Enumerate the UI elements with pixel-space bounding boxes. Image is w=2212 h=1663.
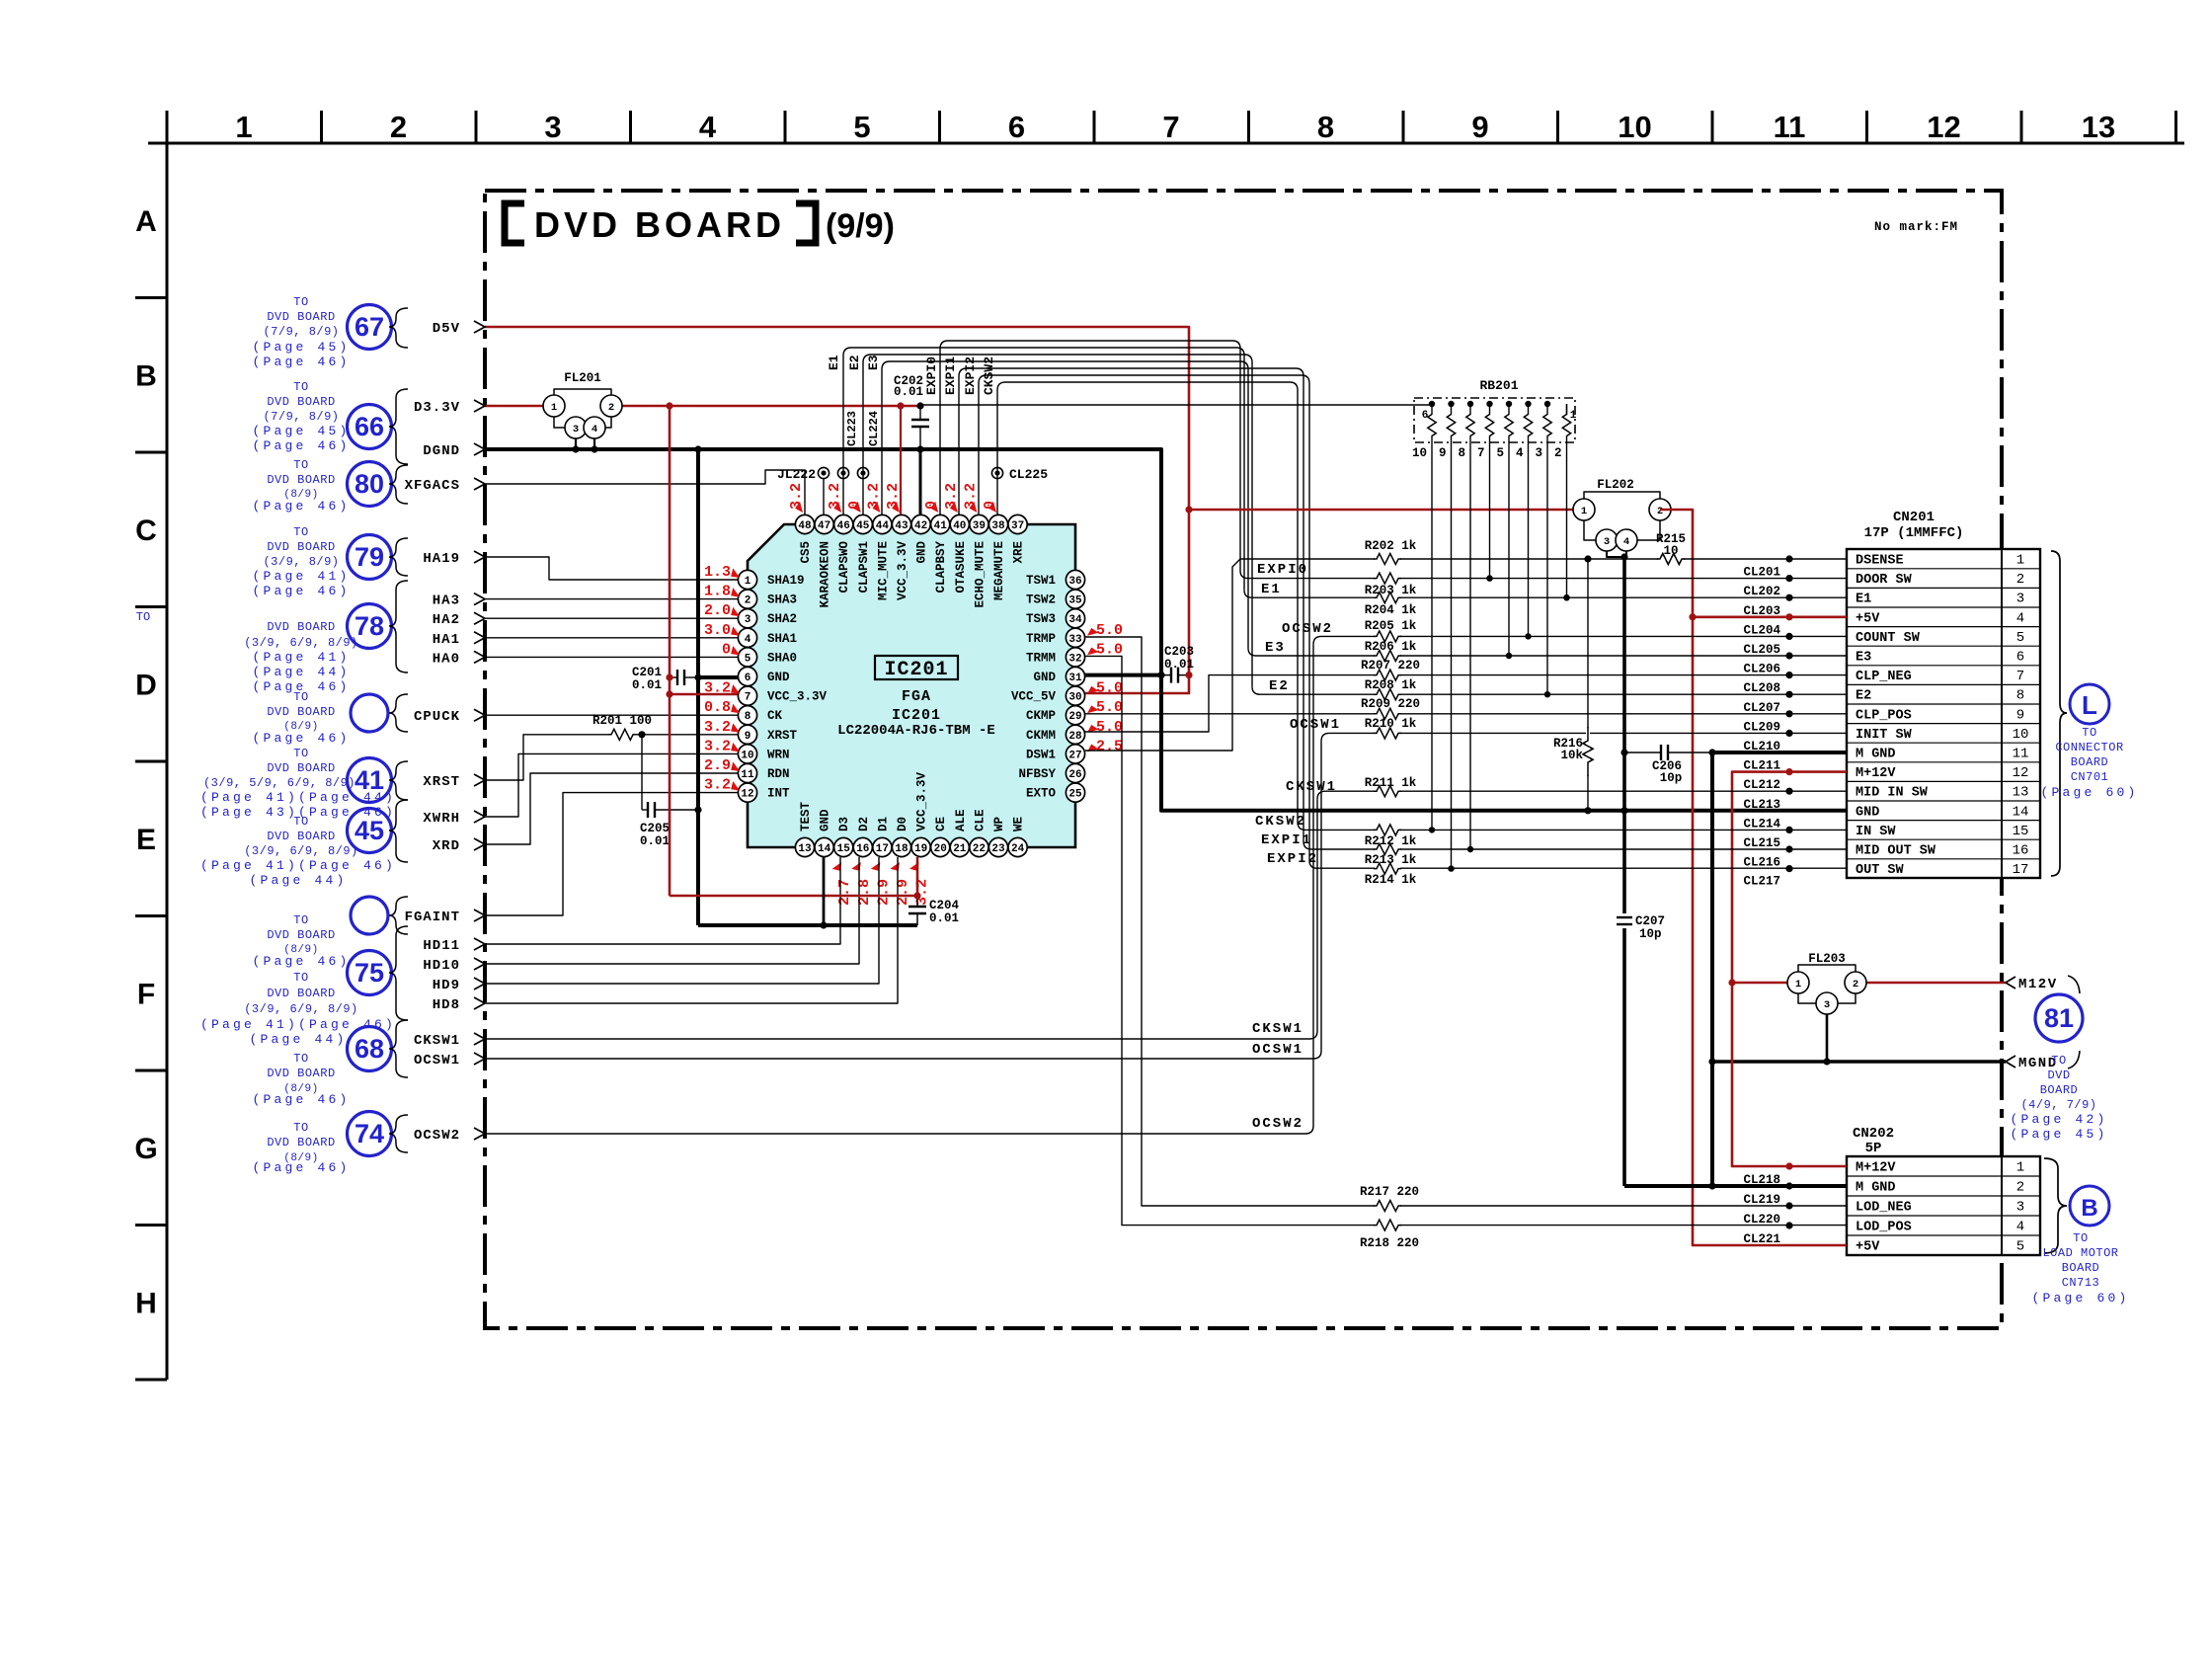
svg-text:(3/9, 6/9, 8/9): (3/9, 6/9, 8/9) [244, 844, 358, 858]
resistor R215 10 (zigzag overlay) [1658, 557, 1684, 561]
svg-text:4: 4 [745, 634, 751, 646]
svg-text:NFBSY: NFBSY [1018, 767, 1056, 781]
svg-text:DVD BOARD: DVD BOARD [267, 928, 335, 942]
svg-text:XWRH: XWRH [423, 811, 460, 827]
wire/bus E3 from pin44 [882, 361, 1248, 648]
svg-text:TSW1: TSW1 [1026, 574, 1056, 588]
svg-text:1.8: 1.8 [704, 584, 731, 600]
svg-text:67: 67 [355, 312, 384, 342]
svg-text:TO: TO [2051, 1054, 2066, 1068]
svg-text:(Page 46): (Page 46) [252, 438, 350, 453]
svg-text:DSENSE: DSENSE [1856, 554, 1904, 569]
svg-text:M GND: M GND [1856, 1181, 1896, 1196]
svg-text:R204 1k: R204 1k [1365, 603, 1417, 617]
svg-text:R203 1k: R203 1k [1365, 584, 1417, 597]
resistor R210 1k [1375, 731, 1400, 735]
svg-text:EXTO: EXTO [1026, 787, 1057, 801]
svg-text:GND: GND [915, 541, 929, 564]
svg-text:R208 1k: R208 1k [1365, 678, 1417, 692]
svg-text:R201 100: R201 100 [592, 714, 652, 728]
svg-text:3.2: 3.2 [704, 738, 731, 754]
exit arrow M12V [2006, 977, 2015, 989]
red wire below IC to pin19 [670, 895, 917, 898]
svg-text:CLP_POS: CLP_POS [1856, 708, 1912, 723]
svg-text:CKSW1: CKSW1 [414, 1033, 460, 1049]
svg-text:13: 13 [2082, 110, 2115, 144]
wire E3 row6 [1248, 648, 1847, 656]
svg-text:35: 35 [1068, 595, 1082, 607]
svg-text:VCC_3.3V: VCC_3.3V [767, 690, 828, 704]
svg-text:3.2: 3.2 [704, 777, 731, 794]
svg-text:TRMP: TRMP [1026, 632, 1056, 646]
svg-text:DVD BOARD: DVD BOARD [267, 705, 335, 719]
svg-text:DVD BOARD: DVD BOARD [267, 1067, 335, 1080]
via JL222 [823, 478, 825, 515]
svg-text:L: L [2082, 690, 2097, 720]
svg-text:WRN: WRN [767, 748, 790, 761]
svg-text:0: 0 [722, 641, 731, 658]
resistor R216 10k [1587, 559, 1589, 727]
wire HA19 [485, 557, 738, 580]
riser CKSW1 up to tag row13 [1316, 799, 1318, 1031]
wire DGND (thick) [485, 449, 1847, 811]
svg-text:68: 68 [355, 1034, 384, 1064]
svg-text:R205 1k: R205 1k [1365, 619, 1417, 633]
svg-text:9: 9 [745, 731, 751, 743]
wire pin7 VCC_3.3V red [670, 693, 738, 696]
FL203 pin3 to MGND [1826, 1014, 1829, 1062]
capacitor C203 0.01 [1161, 674, 1171, 676]
wire MID OUT SW row16 (EXPI1 tag) [1303, 841, 1847, 849]
wire/bus EXPI0 from pin41 [940, 341, 1240, 571]
svg-text:8: 8 [745, 711, 751, 723]
svg-text:(Page 41)(Page 46): (Page 41)(Page 46) [200, 1017, 396, 1032]
svg-text:C204: C204 [929, 899, 960, 912]
svg-text:CL221: CL221 [1743, 1232, 1780, 1246]
svg-text:CL204: CL204 [1743, 623, 1780, 637]
svg-text:OCSW2: OCSW2 [1282, 621, 1333, 637]
svg-text:TO: TO [293, 1052, 308, 1066]
svg-text:FGAINT: FGAINT [405, 910, 460, 925]
svg-text:20: 20 [934, 843, 947, 855]
svg-text:0.01: 0.01 [894, 385, 923, 399]
brace M12V/MGND to 81 [2068, 976, 2080, 993]
riser OCSW2 up to tag row5 [1312, 644, 1314, 1126]
svg-text:FL201: FL201 [564, 371, 601, 385]
svg-text:CS5: CS5 [799, 541, 813, 564]
wire HA2 [485, 617, 738, 619]
svg-text:7: 7 [1162, 110, 1179, 144]
svg-text:1: 1 [235, 110, 252, 144]
resistor R206 1k [1375, 654, 1400, 658]
resistor R214 1k [1375, 867, 1400, 871]
svg-text:1: 1 [551, 402, 557, 414]
via CL223 [837, 467, 848, 478]
red +5V riser x=1714 [1660, 510, 1847, 1245]
svg-text:17: 17 [2013, 862, 2029, 878]
svg-text:TO: TO [293, 913, 308, 927]
svg-text:CL217: CL217 [1743, 875, 1780, 889]
wire E1 row3 [1244, 591, 1847, 598]
svg-text:R214 1k: R214 1k [1365, 873, 1417, 887]
wire OCSW1 from entry to riser [485, 1058, 1313, 1060]
svg-text:D3: D3 [837, 817, 851, 831]
svg-text:40: 40 [953, 520, 966, 532]
svg-text:CPUCK: CPUCK [414, 709, 460, 725]
wire XWRH to pin10 WRN [485, 753, 738, 817]
svg-text:CN202: CN202 [1853, 1126, 1894, 1142]
svg-text:BOARD: BOARD [2062, 1261, 2100, 1275]
svg-text:B: B [2081, 1195, 2097, 1222]
svg-text:DVD: DVD [2047, 1069, 2070, 1082]
svg-text:HA2: HA2 [433, 612, 460, 628]
capacitor C201 0.01 [670, 676, 677, 678]
svg-text:R218 220: R218 220 [1360, 1236, 1419, 1250]
svg-text:22: 22 [973, 843, 986, 855]
svg-text:TEST: TEST [799, 801, 813, 831]
svg-text:36: 36 [1068, 576, 1081, 588]
svg-text:CL212: CL212 [1743, 778, 1780, 792]
capacitor C207 10p [1617, 916, 1632, 918]
ref circle 68 (CKSW1/OCSW1) [348, 1027, 392, 1071]
svg-text:CL206: CL206 [1743, 663, 1780, 676]
svg-text:RB201: RB201 [1479, 378, 1518, 393]
svg-text:2: 2 [1554, 446, 1562, 460]
svg-text:2: 2 [1853, 979, 1858, 990]
svg-text:(7/9, 8/9): (7/9, 8/9) [263, 410, 339, 424]
svg-text:DOOR SW: DOOR SW [1856, 573, 1913, 588]
wire MGND (thick) [1712, 1060, 2006, 1064]
branch D3.3V down to pin43 [900, 406, 902, 515]
svg-text:6: 6 [1008, 110, 1025, 144]
svg-text:CL216: CL216 [1743, 856, 1780, 870]
svg-text:HD8: HD8 [433, 997, 460, 1013]
svg-text:HA0: HA0 [433, 651, 460, 667]
svg-text:10p: 10p [1639, 927, 1662, 941]
wire XRD to pin11 RDN [485, 773, 738, 844]
svg-text:7: 7 [745, 692, 751, 704]
svg-text:EXPI0: EXPI0 [1257, 562, 1308, 578]
svg-text:15: 15 [2013, 824, 2029, 839]
wire HD8 to pin18 D0 [485, 857, 898, 1003]
IC201 left pins 1-12 [738, 570, 756, 589]
wire INIT SW row10 (OCSW1 tag) [1329, 732, 1847, 734]
svg-text:27: 27 [1068, 750, 1081, 761]
svg-text:D2: D2 [857, 817, 871, 831]
svg-text:(3/9, 8/9): (3/9, 8/9) [263, 555, 339, 569]
svg-text:3.0: 3.0 [704, 622, 731, 639]
svg-text:G: G [134, 1133, 157, 1165]
wire HA0 [485, 656, 738, 658]
wire MID IN SW row13 (CKSW1 tag) [1325, 790, 1847, 792]
svg-text:CK: CK [767, 709, 783, 723]
ref circle 78 (HA3-HA0) [348, 604, 392, 649]
svg-text:HA1: HA1 [433, 632, 460, 648]
svg-text:TO: TO [293, 971, 308, 985]
svg-text:OCSW1: OCSW1 [1290, 717, 1341, 733]
svg-text:12: 12 [741, 789, 753, 801]
svg-text:48: 48 [798, 520, 812, 532]
svg-text:CL219: CL219 [1743, 1193, 1780, 1207]
svg-text:10: 10 [1663, 544, 1678, 558]
svg-text:25: 25 [1068, 789, 1082, 801]
svg-text:XRST: XRST [423, 774, 460, 790]
svg-text:CL207: CL207 [1743, 701, 1780, 715]
svg-text:3: 3 [2016, 1200, 2024, 1216]
svg-text:3: 3 [1604, 536, 1610, 548]
svg-text:CL202: CL202 [1743, 585, 1780, 598]
pin14 GND drop (thick) [823, 857, 826, 925]
svg-text:18: 18 [895, 843, 908, 855]
svg-text:2: 2 [608, 402, 614, 414]
svg-text:1.3: 1.3 [704, 564, 731, 581]
wire XFGACS to pin48 CS5 [485, 470, 805, 515]
svg-text:TO: TO [293, 815, 308, 829]
svg-text:(Page 46): (Page 46) [252, 1092, 350, 1107]
wire COUNT SW row5 (OCSW2 tag) [1321, 635, 1847, 637]
wire/bus EXPI1 from pin40 [959, 368, 1303, 841]
svg-text:TO: TO [293, 1121, 308, 1135]
svg-text:5: 5 [853, 110, 870, 144]
svg-text:D5V: D5V [433, 321, 460, 337]
svg-text:CKMM: CKMM [1026, 729, 1056, 743]
svg-text:6: 6 [1422, 410, 1429, 422]
svg-text:CL211: CL211 [1743, 759, 1780, 773]
svg-text:R207 220: R207 220 [1361, 659, 1420, 673]
svg-text:78: 78 [355, 611, 384, 641]
resistor R217 220 [1375, 1204, 1400, 1208]
wire HD9 to pin17 D1 [485, 857, 879, 984]
svg-text:(9/9): (9/9) [826, 207, 895, 245]
svg-text:No mark:FM: No mark:FM [1874, 220, 1958, 234]
svg-text:10p: 10p [1660, 771, 1683, 785]
wire FGAINT to pin12 INT [485, 793, 738, 915]
svg-text:10k: 10k [1560, 749, 1583, 762]
svg-text:EXPI2: EXPI2 [963, 356, 978, 395]
svg-text:BOARD: BOARD [2071, 755, 2109, 769]
svg-text:XRE: XRE [1012, 541, 1026, 564]
svg-text:+5V: +5V [1856, 1240, 1880, 1255]
svg-text:3: 3 [2016, 592, 2024, 607]
svg-text:5P: 5P [1865, 1141, 1882, 1156]
svg-text:DVD BOARD: DVD BOARD [267, 830, 335, 843]
svg-text:CL214: CL214 [1743, 817, 1780, 831]
svg-text:32: 32 [1068, 653, 1081, 665]
svg-text:TRMM: TRMM [1026, 651, 1056, 665]
svg-text:3.2: 3.2 [865, 483, 882, 510]
svg-text:(Page 46): (Page 46) [252, 731, 350, 746]
M-GND drop vertical x=1734 (thick) [1710, 752, 1714, 1186]
svg-text:3.2: 3.2 [704, 719, 731, 736]
riser OCSW1 up to tag row10 [1320, 741, 1322, 1051]
svg-text:VCC_3.3V: VCC_3.3V [915, 771, 929, 831]
svg-text:CLAPSWO: CLAPSWO [837, 541, 851, 594]
wire IN SW row15 (CKSW2 tag) [1298, 822, 1847, 830]
svg-text:CL220: CL220 [1743, 1213, 1780, 1227]
svg-text:3.2: 3.2 [962, 483, 979, 510]
svg-text:TO: TO [293, 380, 308, 394]
svg-text:WP: WP [992, 817, 1006, 831]
svg-text:(Page 41)(Page 46): (Page 41)(Page 46) [200, 858, 396, 873]
M-GND trunk vertical x=1645 (thick) [1622, 557, 1626, 913]
svg-text:EXPI0: EXPI0 [924, 356, 939, 395]
svg-text:DVD BOARD: DVD BOARD [267, 310, 335, 324]
svg-text:CL218: CL218 [1743, 1173, 1780, 1187]
svg-text:17: 17 [876, 843, 889, 855]
svg-text:CL225: CL225 [1009, 467, 1048, 482]
wire OUT SW row17 (EXPI2 tag) [1309, 860, 1847, 868]
svg-text:MIC_MUTE: MIC_MUTE [876, 541, 890, 600]
junction dot D5V/FL202 [1185, 506, 1192, 513]
svg-text:(Page 46): (Page 46) [252, 1160, 350, 1175]
svg-text:47: 47 [818, 520, 830, 532]
svg-text:2.0: 2.0 [704, 602, 731, 619]
svg-text:31: 31 [1068, 673, 1082, 684]
svg-text:CONNECTOR: CONNECTOR [2055, 741, 2123, 754]
svg-text:CL209: CL209 [1743, 720, 1780, 734]
svg-text:4: 4 [1623, 536, 1629, 548]
svg-text:TSW2: TSW2 [1026, 594, 1056, 607]
svg-text:1: 1 [745, 576, 751, 588]
svg-text:CL224: CL224 [867, 411, 881, 446]
svg-text:TO: TO [136, 610, 150, 624]
svg-text:A: A [135, 205, 157, 238]
ref circle 80 (XFGACS) [348, 462, 392, 507]
brace CN201 to L [2051, 551, 2067, 876]
svg-text:CN701: CN701 [2071, 770, 2109, 784]
svg-text:(Page 46): (Page 46) [252, 954, 350, 969]
wire HA1 [485, 637, 738, 639]
svg-text:1: 1 [1795, 979, 1801, 990]
svg-text:41: 41 [934, 520, 948, 532]
ref circle 79 (HA19) [348, 535, 392, 580]
svg-text:CL215: CL215 [1743, 836, 1780, 850]
svg-text:LOAD MOTOR: LOAD MOTOR [2042, 1246, 2118, 1260]
wire/bus CKSW2 from pin38 [997, 382, 1298, 822]
svg-text:SHA0: SHA0 [767, 651, 797, 665]
ref circle 81 (M12V/MGND) [2035, 994, 2083, 1042]
svg-text:E2: E2 [1856, 689, 1871, 704]
svg-text:80: 80 [355, 469, 384, 499]
svg-text:5: 5 [2016, 630, 2024, 646]
capacitor C202 0.01 [919, 406, 921, 420]
svg-text:DVD BOARD: DVD BOARD [267, 761, 335, 775]
svg-text:3.2: 3.2 [885, 483, 902, 510]
svg-text:9: 9 [1439, 446, 1447, 460]
svg-text:HD11: HD11 [423, 938, 460, 954]
svg-text:SHA2: SHA2 [767, 612, 797, 626]
svg-text:10: 10 [741, 750, 753, 761]
svg-text:0.01: 0.01 [632, 678, 662, 692]
svg-text:M+12V: M+12V [1856, 766, 1896, 781]
svg-text:COUNT SW: COUNT SW [1856, 631, 1921, 646]
capacitor C206 10p [1624, 752, 1661, 753]
svg-text:IC201: IC201 [892, 707, 941, 724]
svg-text:SHA19: SHA19 [767, 574, 805, 588]
resistor network RB201 [1412, 378, 1577, 460]
svg-text:5: 5 [745, 653, 751, 665]
svg-text:JL222: JL222 [777, 467, 816, 482]
svg-text:5.0: 5.0 [1096, 719, 1123, 736]
svg-text:DGND: DGND [423, 443, 460, 459]
svg-text:ALE: ALE [954, 809, 968, 831]
svg-text:CL213: CL213 [1743, 798, 1780, 812]
svg-text:6: 6 [745, 673, 751, 684]
svg-text:GND: GND [767, 671, 790, 684]
junction dots RB201 rail crossing rows [1486, 575, 1492, 581]
svg-text:2: 2 [2016, 572, 2024, 588]
wire/bus EXPI2 from pin39 [979, 375, 1309, 860]
DGND branch vertical x=707 (thick) [696, 449, 700, 925]
svg-text:E1: E1 [1261, 582, 1282, 597]
svg-text:E: E [136, 824, 156, 856]
title DVD BOARD (9/9) [505, 203, 895, 245]
svg-text:R206 1k: R206 1k [1365, 640, 1417, 654]
svg-text:M+12V: M+12V [1856, 1161, 1896, 1176]
svg-text:FL203: FL203 [1808, 952, 1846, 966]
svg-text:MID IN SW: MID IN SW [1856, 786, 1929, 801]
svg-text:C: C [135, 515, 157, 547]
svg-text:D1: D1 [876, 817, 890, 831]
wire M+12V row12 (red) [1732, 772, 1847, 983]
wire CKSW1 from entry to riser [485, 1038, 1309, 1040]
connector CN202 5P [1847, 1126, 2040, 1255]
svg-text:DVD BOARD: DVD BOARD [267, 473, 335, 487]
svg-text:CLAPSW1: CLAPSW1 [857, 541, 871, 594]
svg-text:INIT SW: INIT SW [1856, 728, 1913, 743]
svg-text:R211 1k: R211 1k [1365, 776, 1417, 790]
svg-text:28: 28 [1068, 731, 1082, 743]
svg-text:21: 21 [953, 843, 967, 855]
wire D5V (red) [485, 327, 1189, 693]
red +5V branch to CN201 row4 [1693, 615, 1847, 618]
svg-text:1: 1 [2016, 553, 2024, 569]
svg-text:TO: TO [293, 747, 308, 760]
svg-text:LC22004A-RJ6-TBM -E: LC22004A-RJ6-TBM -E [837, 723, 995, 739]
svg-text:19: 19 [914, 843, 927, 855]
IC201 bottom pins 13-24 [795, 837, 814, 856]
svg-text:E3: E3 [866, 355, 881, 370]
svg-text:C207: C207 [1635, 914, 1665, 928]
svg-text:VCC_5V: VCC_5V [1011, 690, 1057, 704]
wire DOOR SW row2 (EXPI0 tag) [1240, 571, 1847, 579]
resistor R202 1k [1375, 557, 1400, 561]
svg-text:8: 8 [2016, 688, 2024, 704]
wire M GND row11 (thick) [1712, 751, 1847, 754]
resistor R209 220 [1375, 712, 1400, 716]
resistor R218 220 [1375, 1224, 1400, 1227]
resistor R212 1k [1375, 828, 1400, 831]
svg-text:INT: INT [767, 787, 790, 801]
svg-text:OCSW2: OCSW2 [414, 1128, 460, 1144]
svg-text:DVD BOARD: DVD BOARD [267, 540, 335, 554]
svg-text:75: 75 [355, 958, 384, 988]
svg-text:(Page 42): (Page 42) [2010, 1112, 2107, 1127]
svg-text:C205: C205 [640, 822, 670, 835]
svg-text:(Page 45): (Page 45) [2010, 1127, 2107, 1142]
svg-text:EXPI2: EXPI2 [1267, 851, 1318, 867]
svg-text:2.5: 2.5 [1096, 738, 1123, 754]
wire/bus E2 from pin45 [863, 355, 1252, 686]
svg-text:E1: E1 [1856, 593, 1871, 607]
svg-text:8: 8 [1317, 110, 1334, 144]
svg-text:HA19: HA19 [423, 551, 460, 567]
ref circle blank (CPUCK) [351, 694, 388, 732]
svg-text:OCSW2: OCSW2 [1252, 1116, 1303, 1132]
svg-text:CL208: CL208 [1743, 681, 1780, 695]
border ruler frame [134, 110, 2184, 1380]
svg-text:3.2: 3.2 [788, 483, 805, 510]
